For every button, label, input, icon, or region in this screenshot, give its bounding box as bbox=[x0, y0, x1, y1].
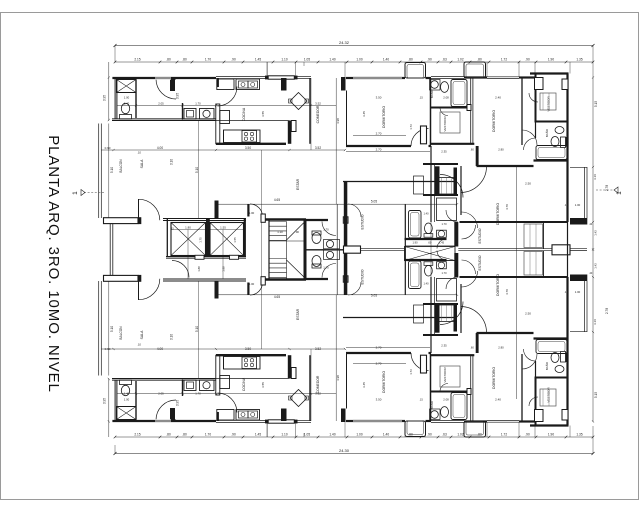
svg-text:1.40: 1.40 bbox=[124, 101, 130, 105]
svg-text:.10: .10 bbox=[137, 343, 141, 347]
kitchen entry door arc (mirrored) bbox=[218, 393, 238, 413]
dim 5.05 estudio (bottom) bbox=[371, 294, 377, 298]
dormitorio mid top wall (mirrored) bbox=[346, 420, 405, 422]
hatched closet box top-left bbox=[117, 80, 137, 93]
svg-text:VESTIDOR: VESTIDOR bbox=[443, 367, 447, 383]
dim 2.78 right marker (top) bbox=[605, 185, 609, 191]
balcony rail lines left (mirrored) bbox=[99, 281, 102, 376]
svg-text:2.50: 2.50 bbox=[525, 312, 531, 316]
svg-text:2.15: 2.15 bbox=[134, 58, 140, 62]
svg-text:DORMITORIO: DORMITORIO bbox=[382, 371, 386, 393]
dim 1.70 core bath (top) bbox=[323, 228, 329, 232]
room label ESTUDIO left (top) bbox=[361, 214, 365, 229]
closet hall walls bbox=[423, 164, 458, 195]
dim 2.70 below dorm a (top) bbox=[376, 131, 382, 135]
svg-text:.60: .60 bbox=[470, 346, 474, 350]
kitchen bottom wall bbox=[216, 143, 286, 145]
top wall of top-left unit bbox=[112, 77, 216, 79]
balcony rail lines left bbox=[99, 124, 102, 219]
dim ext line x516 bbox=[516, 167, 518, 399]
dim .15 right balcony (bottom) bbox=[564, 290, 568, 294]
svg-text:3.16: 3.16 bbox=[593, 174, 597, 180]
bottom subdivision dimension labels bbox=[134, 433, 582, 437]
svg-text:1.45: 1.45 bbox=[255, 433, 261, 437]
right outer wall (mirrored) bbox=[566, 277, 568, 426]
closet shelves upper (mirrored) bbox=[437, 305, 457, 322]
svg-text:.15: .15 bbox=[170, 227, 174, 230]
dim 3.16 right (top) bbox=[593, 174, 597, 180]
svg-text:5.15: 5.15 bbox=[594, 101, 598, 107]
top subdivision dimension labels bbox=[134, 58, 582, 62]
room label COCINA (bottom) bbox=[242, 377, 246, 391]
svg-text:3.52: 3.52 bbox=[315, 347, 321, 351]
room label ESTUDIO left (bottom) bbox=[361, 269, 365, 284]
svg-text:1.02: 1.02 bbox=[457, 58, 463, 62]
door arc top-left unit bbox=[156, 79, 176, 99]
svg-text:DORMITORIO: DORMITORIO bbox=[496, 274, 500, 296]
dorm mid dim lines (mirrored) bbox=[346, 348, 430, 364]
sala dim extension line 5.10 (mirrored) bbox=[198, 281, 200, 378]
svg-text:1.00: 1.00 bbox=[575, 290, 581, 294]
dim 3.16 right (bottom) bbox=[593, 319, 597, 325]
svg-text:1.70: 1.70 bbox=[323, 228, 329, 232]
bath column window (mirrored) bbox=[431, 420, 464, 422]
svg-text:BAÑO: BAÑO bbox=[544, 128, 549, 137]
sala balcony door leaf and arc bbox=[139, 199, 160, 220]
kitchen bottom counter with stove bbox=[224, 130, 261, 143]
wing shaft hatched box bbox=[405, 247, 456, 261]
svg-text:SALA: SALA bbox=[140, 330, 144, 339]
kitchen window a (mirrored) bbox=[216, 420, 267, 422]
svg-text:3.50: 3.50 bbox=[376, 398, 382, 402]
svg-text:2.70: 2.70 bbox=[376, 147, 382, 151]
closet hall walls (mirrored) bbox=[423, 304, 458, 335]
core bath door arc top bbox=[322, 222, 336, 236]
closet column wall b bbox=[434, 164, 436, 222]
dim .40 right (top) bbox=[589, 223, 593, 226]
toilet in top-left bath bbox=[120, 103, 132, 119]
mid divider beam left bbox=[361, 249, 405, 251]
dim 3.45 dorm mid (top) bbox=[362, 111, 366, 117]
dim 3.52 comedor upper (bottom) bbox=[315, 392, 321, 396]
estudio door arc bbox=[348, 204, 361, 217]
svg-text:1.45: 1.45 bbox=[255, 58, 261, 62]
svg-text:1.55: 1.55 bbox=[233, 237, 237, 243]
estudio right top wall bbox=[460, 221, 568, 223]
svg-text:1.05: 1.05 bbox=[304, 433, 310, 437]
room label BANO right (bottom) bbox=[544, 361, 549, 370]
bathtub right unit bbox=[536, 146, 567, 160]
vestidor2 closet (mirrored) bbox=[540, 389, 556, 406]
dim 2.35 vest (bottom) bbox=[441, 344, 447, 348]
wing dim line bbox=[405, 245, 455, 247]
svg-text:.63: .63 bbox=[442, 433, 447, 437]
svg-text:.80: .80 bbox=[477, 58, 482, 62]
room label DORMITORIO right upper (bottom) bbox=[492, 367, 496, 389]
room label DORMITORIO right lower (top) bbox=[496, 203, 500, 225]
closet column black bar bbox=[435, 166, 440, 194]
svg-text:2.40: 2.40 bbox=[495, 96, 501, 100]
kitchen lower wall and stub (mirrored) bbox=[216, 355, 296, 378]
dim .15 bath mid (top) bbox=[419, 96, 423, 100]
dim 4.65 estar (top) bbox=[274, 198, 280, 202]
wing bath wall bbox=[405, 238, 447, 240]
bano2 door arc (mirrored) bbox=[524, 349, 536, 361]
apartment divider thick seg a bbox=[454, 168, 458, 196]
svg-text:1.73: 1.73 bbox=[409, 369, 413, 375]
dim 1.73 door (bottom) bbox=[409, 369, 413, 375]
dorm right door arc 2 bbox=[462, 212, 478, 228]
room label ESTUDIO right (top) bbox=[478, 228, 482, 243]
dim 2.05 lobby (top) bbox=[158, 101, 164, 105]
right apt entry door arc a (mirrored) bbox=[461, 307, 487, 333]
room label COMEDOR (top) bbox=[316, 105, 320, 123]
interior dim line y105 bbox=[117, 104, 336, 106]
svg-text:2.70: 2.70 bbox=[376, 131, 382, 135]
window top-left unit (mirrored) bbox=[155, 419, 171, 422]
svg-text:.80: .80 bbox=[182, 433, 187, 437]
dim .10 tick row (top) bbox=[137, 151, 141, 155]
dim .60 wing bbox=[428, 241, 432, 245]
svg-text:BALCON: BALCON bbox=[119, 159, 123, 173]
dim .40 right (bottom) bbox=[589, 272, 593, 275]
dim 3.50 estar row (bottom) bbox=[245, 347, 251, 351]
bath-vestidor wall bbox=[431, 105, 472, 111]
bottom subdivision dimension line with ticks bbox=[114, 436, 595, 439]
core bottom wall bbox=[163, 279, 246, 282]
svg-text:.80: .80 bbox=[408, 58, 413, 62]
svg-text:.90: .90 bbox=[525, 433, 530, 437]
wall between top-left unit and kitchen unit bbox=[216, 78, 220, 144]
dim 3.50 estar row (top) bbox=[245, 146, 251, 150]
dormitorio mid top wall bbox=[346, 77, 405, 79]
dim 3.52 comedor row (bottom) bbox=[315, 347, 321, 351]
right apt window bbox=[487, 77, 519, 79]
estar corridor door leaf and arc (mirrored) bbox=[247, 283, 262, 296]
dim 2.78 right marker (bottom) bbox=[605, 308, 609, 314]
dormitorio mid door arc (mirrored) bbox=[411, 353, 429, 371]
dim 1.00 bath (bottom) bbox=[124, 398, 130, 402]
svg-text:1.10: 1.10 bbox=[281, 433, 287, 437]
dormitorio mid door arc bbox=[411, 129, 429, 147]
dim 3.52 comedor row (top) bbox=[315, 146, 321, 150]
svg-text:1.55: 1.55 bbox=[220, 225, 226, 229]
svg-text:2.15: 2.15 bbox=[134, 433, 140, 437]
svg-text:1.70: 1.70 bbox=[323, 266, 329, 270]
right unit left wall bbox=[535, 74, 537, 139]
window top-left unit bbox=[155, 76, 171, 79]
dormitorio mid right wall bbox=[430, 78, 432, 145]
svg-text:1.70: 1.70 bbox=[205, 433, 211, 437]
room label BANO right (top) bbox=[544, 128, 549, 137]
dim 5.10 sala (top) bbox=[195, 167, 199, 173]
fridge cabinet (mirrored) bbox=[217, 410, 234, 421]
svg-text:5.10: 5.10 bbox=[195, 326, 199, 332]
core top wall right segment bbox=[265, 218, 328, 221]
right outer wall bbox=[566, 74, 568, 223]
dim 3.95 sala (bottom) bbox=[176, 400, 180, 406]
svg-text:.40: .40 bbox=[589, 223, 593, 226]
balcony end wall (mirrored) bbox=[104, 275, 142, 282]
svg-text:2.35: 2.35 bbox=[441, 149, 447, 153]
dim 1.40 bath (bottom) bbox=[124, 392, 130, 396]
bano2 dark block bbox=[566, 137, 569, 147]
vestidor bottom wall (mirrored) bbox=[431, 354, 475, 356]
room label COCINA (top) bbox=[242, 107, 246, 121]
dim 3.95 left (top) bbox=[103, 95, 107, 101]
svg-text:.90: .90 bbox=[427, 58, 432, 62]
closet column wall b (mirrored) bbox=[434, 277, 436, 335]
dim 1.80 elevator 1 bbox=[185, 225, 191, 229]
wing bath tub (mirrored) bbox=[409, 261, 422, 289]
kitchen entry door arc bbox=[218, 87, 238, 107]
svg-text:1.40: 1.40 bbox=[423, 282, 429, 286]
room label COMEDOR (bottom) bbox=[316, 375, 320, 393]
dorm right door arc 2 (mirrored) bbox=[462, 271, 478, 287]
svg-text:4.65: 4.65 bbox=[274, 295, 280, 299]
dim 3.10 sala (top) bbox=[170, 159, 174, 165]
bath wall below closet (mirrored) bbox=[117, 381, 137, 420]
dormitorio mid bottom wall bbox=[346, 145, 431, 147]
estudio door arc (mirrored) bbox=[348, 282, 361, 295]
dormitorio lower left wall bbox=[460, 166, 462, 215]
svg-text:1.75: 1.75 bbox=[199, 237, 203, 243]
svg-text:5.10: 5.10 bbox=[195, 167, 199, 173]
bath sink counter bbox=[430, 80, 441, 91]
estudio dim tick bbox=[456, 203, 458, 205]
vestidor door arc bbox=[440, 108, 448, 116]
room label DORMITORIO right lower (bottom) bbox=[496, 274, 500, 296]
dim 2.70 below dorm b (bottom) bbox=[376, 346, 382, 350]
apartment divider upper (mirrored) bbox=[471, 355, 473, 421]
sala-estar divider and dim line (mirrored) bbox=[219, 294, 458, 296]
wing bath left wall bbox=[404, 204, 406, 294]
section marker right bbox=[596, 187, 623, 195]
elevator bottom wall bbox=[166, 256, 246, 259]
room label VESTIDOR mid (bottom) bbox=[443, 367, 447, 383]
dorm right wall to bath column (mirrored) bbox=[521, 354, 523, 422]
dim 1.73 door (top) bbox=[409, 124, 413, 130]
mid divider stub to balcony bbox=[570, 249, 587, 251]
kitchen window ext lines bbox=[267, 62, 295, 76]
svg-text:5.10: 5.10 bbox=[110, 167, 114, 173]
dim 3.95 sala (top) bbox=[176, 93, 180, 99]
svg-text:1.00: 1.00 bbox=[249, 211, 255, 215]
room label VESTIDOR right (bottom) bbox=[547, 387, 551, 403]
bano2 toilet (mirrored) bbox=[551, 353, 559, 363]
svg-text:ESTUDIO: ESTUDIO bbox=[478, 228, 482, 243]
svg-text:0.90: 0.90 bbox=[105, 347, 111, 351]
interior dim line y105 (mirrored) bbox=[117, 392, 336, 394]
wing bath door arc (mirrored) bbox=[437, 251, 447, 261]
vestidor bottom wall bbox=[431, 143, 475, 145]
estudio right door arc bbox=[462, 225, 476, 239]
svg-text:1.70: 1.70 bbox=[205, 58, 211, 62]
svg-text:3.52: 3.52 bbox=[315, 392, 321, 396]
svg-text:4.00: 4.00 bbox=[157, 146, 163, 150]
right balcony rails bbox=[570, 167, 587, 218]
room label DORMITORIO right upper (top) bbox=[492, 110, 496, 132]
dim 1.70 kitchenette (bottom) bbox=[195, 392, 201, 396]
dim 2.35 vest (top) bbox=[441, 149, 447, 153]
svg-text:ESTUDIO: ESTUDIO bbox=[361, 269, 365, 284]
right apt window (mirrored) bbox=[487, 421, 519, 423]
svg-text:3.52: 3.52 bbox=[315, 146, 321, 150]
dim 1.70 hall (bottom) bbox=[441, 271, 447, 275]
svg-text:1.72: 1.72 bbox=[501, 58, 507, 62]
svg-text:3.16: 3.16 bbox=[593, 319, 597, 325]
elevator cell 2 bbox=[210, 223, 244, 256]
svg-text:3.10: 3.10 bbox=[170, 159, 174, 165]
core bath sink top (mirrored) bbox=[324, 250, 340, 259]
core bath door arc bottom bbox=[322, 264, 336, 278]
dorm right door arc bbox=[522, 129, 537, 145]
bathtub bbox=[451, 80, 467, 107]
kitchen window ext lines (mirrored) bbox=[267, 423, 295, 437]
elevator cell 1 bbox=[171, 223, 206, 256]
dim 1.90 wing bbox=[412, 241, 418, 245]
wall stub at estar (mirrored) bbox=[215, 280, 219, 299]
interior dim line y150 bbox=[101, 149, 346, 151]
balcony end wall bbox=[104, 217, 142, 224]
svg-text:1.00: 1.00 bbox=[575, 203, 581, 207]
bath column window bbox=[431, 77, 464, 79]
svg-text:ESTUDIO: ESTUDIO bbox=[361, 214, 365, 229]
core bath sink top bbox=[324, 240, 340, 249]
bath sink counter (mirrored) bbox=[430, 409, 441, 420]
kitchenette stove (mirrored) bbox=[200, 380, 215, 391]
bath-vestidor wall (mirrored) bbox=[431, 389, 472, 395]
vestidor jamb bbox=[421, 126, 427, 144]
svg-text:5.05: 5.05 bbox=[371, 200, 377, 204]
kitchenette counter with sink bbox=[184, 109, 196, 120]
comedor dim vline (mirrored) bbox=[262, 250, 312, 422]
dim .15 bath mid (bottom) bbox=[419, 398, 423, 402]
estudio right closet (mirrored) bbox=[524, 252, 543, 276]
svg-text:1.70: 1.70 bbox=[441, 271, 447, 275]
room label SALA (bottom) bbox=[140, 330, 144, 339]
room label BALCON (top) bbox=[119, 159, 123, 173]
elevator separator wall bbox=[206, 219, 210, 258]
wing bath toilet bbox=[424, 223, 433, 237]
elevator right wall bbox=[244, 219, 246, 258]
svg-text:2.05: 2.05 bbox=[158, 392, 164, 396]
svg-text:24.30: 24.30 bbox=[339, 448, 350, 453]
kitchen window sill (mirrored) bbox=[265, 420, 298, 424]
svg-text:1.80: 1.80 bbox=[185, 225, 191, 229]
kitchenette counter with sink (mirrored) bbox=[184, 380, 196, 391]
dim 3.55 cocina (top) bbox=[261, 111, 265, 117]
dim 3.52 comedor upper (top) bbox=[315, 101, 321, 105]
dim .15 right balcony (top) bbox=[564, 203, 568, 207]
svg-text:1.90: 1.90 bbox=[548, 58, 554, 62]
estudio right inner wall bbox=[543, 222, 545, 249]
right unit top wall bbox=[530, 72, 569, 74]
bano2 shower bbox=[561, 137, 566, 148]
bano2 dark block (mirrored) bbox=[566, 353, 569, 363]
dim 2.80 hall row (top) bbox=[498, 148, 504, 152]
vestidor closet (mirrored) bbox=[440, 366, 460, 387]
corridor jamb top bbox=[261, 214, 265, 222]
svg-text:BAÑO: BAÑO bbox=[544, 361, 549, 370]
pilaster kitchen wall bbox=[281, 78, 287, 91]
wing bath wall (mirrored) bbox=[405, 259, 447, 261]
dim 3.10 sala (bottom) bbox=[170, 334, 174, 340]
svg-text:1.35: 1.35 bbox=[576, 433, 582, 437]
dim 3.45 dorm mid (bottom) bbox=[362, 382, 366, 388]
sala balcony door leaf and arc (mirrored) bbox=[139, 279, 160, 300]
stairs right wall bbox=[304, 219, 307, 280]
room label VESTIDOR right (top) bbox=[547, 96, 551, 112]
right dim col (mirrored) bbox=[592, 249, 594, 423]
dim 1.43 right (bottom) bbox=[594, 263, 598, 269]
closet column wall a bbox=[430, 146, 432, 222]
svg-text:5.05: 5.05 bbox=[371, 294, 377, 298]
wing bath toilet (mirrored) bbox=[424, 262, 433, 276]
inter-balcony divider wall (mirrored) bbox=[110, 250, 113, 276]
cabinet bbox=[220, 111, 230, 124]
closet small estudio bbox=[414, 176, 424, 194]
estar corridor door leaf and arc bbox=[247, 204, 262, 217]
hall room lower (mirrored) bbox=[437, 279, 457, 302]
right unit jamb right bbox=[562, 79, 568, 90]
dim 3.55 cocina (bottom) bbox=[261, 382, 265, 388]
hall wall right segment bbox=[476, 146, 534, 166]
svg-text:2.80: 2.80 bbox=[498, 148, 504, 152]
right unit jamb left bbox=[535, 78, 544, 90]
svg-text:.80: .80 bbox=[477, 433, 482, 437]
bottom wall of top-left unit bbox=[112, 118, 217, 121]
left dim col (mirrored) bbox=[108, 281, 110, 437]
svg-text:24.32: 24.32 bbox=[339, 40, 350, 45]
dim 2.50 dorm right (bottom) bbox=[525, 312, 531, 316]
vestidor jamb (mirrored) bbox=[421, 355, 427, 373]
estudio right top wall (mirrored) bbox=[460, 276, 568, 278]
bath wall below closet bbox=[117, 80, 137, 119]
kitchen lower wall and stub bbox=[216, 121, 296, 144]
comedor dim ext line (mirrored) bbox=[335, 295, 337, 421]
kitchen window a bbox=[216, 76, 267, 78]
drawing title PLANTA ARQ. 3RO. 10MO. NIVEL bbox=[45, 135, 62, 393]
elevator dim labels line bbox=[171, 229, 244, 231]
dining diamond table bbox=[289, 93, 309, 110]
dim 3.95 left (bottom) bbox=[103, 398, 107, 404]
hall wall right segment (mirrored) bbox=[476, 333, 534, 353]
dim 5.15 right col (top) bbox=[594, 101, 598, 107]
left outer wall of top-left unit (mirrored) bbox=[115, 379, 118, 423]
right apt entry door arc b (mirrored) bbox=[440, 302, 463, 325]
dim 4.98 comedor (bottom) bbox=[336, 375, 340, 381]
dim 4.70 dorm right (top) bbox=[505, 204, 509, 210]
bano2 toilet bbox=[551, 137, 559, 147]
svg-text:1.73: 1.73 bbox=[409, 124, 413, 130]
kitchenette wall bbox=[182, 103, 184, 120]
svg-text:.60: .60 bbox=[470, 148, 474, 152]
estudio dim tick (mirrored) bbox=[456, 294, 458, 296]
svg-text:4.98: 4.98 bbox=[336, 118, 340, 124]
dim 2.40 dorm upper (bottom) bbox=[495, 398, 501, 402]
dormitorio mid right wall (mirrored) bbox=[430, 354, 432, 421]
svg-text:1.90: 1.90 bbox=[548, 433, 554, 437]
dim 1.00 bath (top) bbox=[124, 96, 130, 100]
room label BALCON (bottom) bbox=[119, 326, 123, 340]
dormitorio lower left wall (mirrored) bbox=[460, 284, 462, 333]
svg-text:1.70: 1.70 bbox=[195, 392, 201, 396]
closet column wall a (mirrored) bbox=[430, 277, 432, 353]
svg-text:.40: .40 bbox=[589, 272, 593, 275]
right dim col bbox=[592, 76, 594, 250]
core bottom wall right segment bbox=[265, 278, 328, 281]
